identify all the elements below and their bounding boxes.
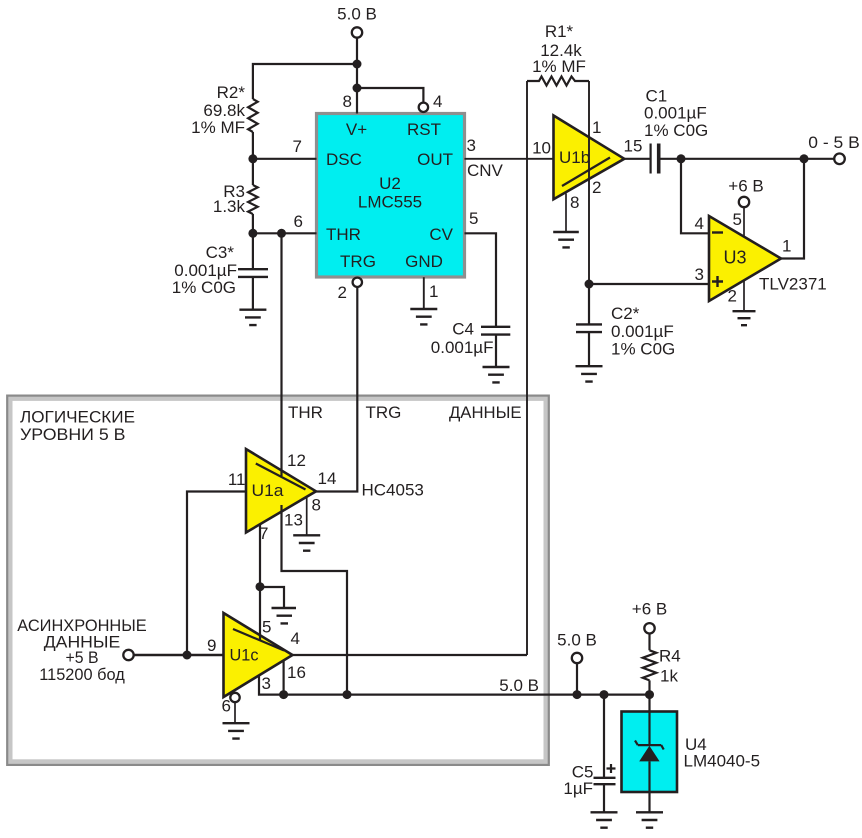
wire U2 OUT pin 3 to U1b pin 10 [465,158,554,160]
wire U2 CV pin 5 down to C4 [465,233,497,326]
wire U1a pin 13 down and over to 5V rail [282,505,348,695]
wire from top rail left to R2 [253,64,357,99]
U3 plus input symbol [712,276,723,287]
junction U1a pin13 at rail [343,690,352,699]
svg-text:16: 16 [287,663,306,682]
svg-text:2: 2 [728,287,737,306]
svg-text:R1*: R1* [545,22,574,41]
svg-text:9: 9 [207,636,216,655]
wire C2 node down to C2 [588,284,590,324]
terminal 5.0V bottom [572,653,582,663]
svg-text:U2: U2 [379,174,401,193]
junction C2 node [585,280,594,289]
junction 5.0V terminal at rail [573,690,582,699]
wire R4 bottom to rail [648,680,650,694]
svg-text:0.001µF: 0.001µF [611,322,674,341]
svg-text:1: 1 [592,118,601,137]
resistor R1 top bracket with zigzag [527,77,589,86]
wire U1a pin 7 down to U1c pin 5 [259,524,261,641]
ground under C4 [483,367,510,382]
junction pin7/pin5 ground node [256,582,265,591]
ground under U1b pin 8 [553,232,579,247]
wire R1 left leg down to data line [526,81,528,655]
U1b wiper line [562,158,610,187]
svg-text:0.001µF: 0.001µF [431,338,494,357]
U3 minus input symbol [712,231,723,233]
capacitor C2 plates [576,324,602,332]
svg-text:3: 3 [467,136,476,155]
svg-text:5.0 В: 5.0 В [557,631,597,650]
wire ground branch at pin7/pin5 node [260,587,284,608]
terminal +6V at R4 [644,623,654,633]
svg-text:C4: C4 [452,320,474,339]
svg-text:5: 5 [262,618,271,637]
svg-text:0.001µF: 0.001µF [644,104,707,123]
svg-text:8: 8 [343,92,352,111]
junction C5 at rail [600,690,609,699]
svg-text:1: 1 [782,237,791,256]
wire U1b pin 8 to ground [565,194,567,233]
wire +6V terminal to U3 pin 5 [743,207,745,237]
wire rail down to C5 [603,695,605,777]
svg-text:HC4053: HC4053 [362,481,424,500]
svg-text:4: 4 [291,629,300,648]
svg-text:U3: U3 [724,248,747,268]
logic-levels box frame (dark outer line) [7,396,549,765]
svg-text:GND: GND [405,252,443,271]
svg-text:+6 В: +6 В [632,600,667,619]
svg-text:RST: RST [407,120,441,139]
wire THR long vertical down to U1a pin 12 [280,233,282,476]
svg-text:U1b: U1b [559,148,590,167]
mux U1a triangle [246,449,316,533]
wire U1a pin 8 to ground [306,497,308,535]
wire U1c output to R1 left leg [293,654,528,656]
svg-text:3: 3 [262,674,271,693]
svg-text:TRG: TRG [340,252,376,271]
svg-text:1% MF: 1% MF [191,118,245,137]
mux U1c triangle [224,613,293,697]
svg-text:115200 бод: 115200 бод [39,665,125,684]
ground under U2 pin 1 [410,309,437,324]
svg-text:LMC555: LMC555 [358,193,422,212]
svg-text:ЛОГИЧЕСКИЕ: ЛОГИЧЕСКИЕ [20,408,135,427]
zener diode inside U4 [635,741,664,750]
svg-text:OUT: OUT [417,150,453,169]
capacitor C4 plates [481,327,510,335]
wire U1c pin 6 bubble to ground [234,702,236,723]
svg-text:11: 11 [228,470,246,489]
svg-text:3: 3 [695,265,704,284]
ground under U3 pin 2 [733,311,756,325]
resistor R2 zigzag [248,99,258,132]
capacitor C5 plates [594,778,616,784]
wire TRG pin 2 long vertical down to U1a pin 14 route [314,277,357,491]
ground under C3 [239,310,266,325]
wire THR node down to C3 [252,233,254,269]
junction R4/U4 at rail [645,690,654,699]
svg-text:1% C0G: 1% C0G [644,121,708,140]
wire data node up to U1a pin 11 [187,492,246,656]
svg-text:R2*: R2* [217,83,246,102]
svg-text:U1a: U1a [252,481,285,500]
junction top rail at 5.0V [353,60,362,69]
svg-text:1µF: 1µF [563,779,593,798]
svg-text:TRG: TRG [366,403,402,422]
resistor R3 zigzag [248,185,258,214]
wire C2 node to U3 pin 3 [589,283,709,285]
wire R3 to THR node [252,214,254,233]
svg-text:C2*: C2* [611,304,640,323]
wire U1b output to C1 [624,158,650,160]
svg-text:8: 8 [312,496,321,515]
svg-text:5: 5 [733,210,742,229]
resistor R4 zigzag [643,650,657,680]
junction THR node right [277,229,286,238]
IC U2 LMC555 body [317,114,465,278]
logic-levels box frame (light inner band) [10,399,546,762]
buffer U1b triangle [554,116,625,200]
wire U3 output feedback up to output line [781,159,804,259]
terminal async data input [123,650,133,660]
wire 5.0V top terminal down to U2 V+ pin 8 [356,37,358,114]
svg-text:5.0 В: 5.0 В [337,5,377,24]
terminal U1c pin 6 bubble [230,693,239,702]
wire DSC node to U2 pin 7 [253,158,317,160]
svg-text:0 - 5 В: 0 - 5 В [808,133,860,152]
terminal 5.0V top [352,27,362,37]
svg-text:1: 1 [429,282,438,301]
wire THR node to U2 pin 6 [253,232,317,234]
svg-text:14: 14 [318,469,337,488]
svg-text:+6 В: +6 В [728,177,763,196]
wire C2 to ground [588,332,590,366]
terminal +6V at U3 [739,197,749,207]
svg-text:TLV2371: TLV2371 [759,275,827,294]
wire 5.0V bottom terminal to rail [576,663,578,695]
terminal 0-5V output [834,154,845,165]
svg-text:2: 2 [592,178,601,197]
wire R2 to DSC node [252,132,254,159]
IC U4 LM4040-5 body [622,712,678,793]
svg-text:R4: R4 [659,647,681,666]
ground under U1a pin 8 [293,535,320,550]
wire DSC node down to R3 [252,159,254,185]
svg-text:10: 10 [532,139,551,158]
svg-text:CNV: CNV [467,161,504,180]
svg-text:1.3k: 1.3k [213,197,246,216]
wire U1c pin 3 to 5V rail [259,675,650,694]
svg-text:LM4040-5: LM4040-5 [684,752,761,771]
svg-text:THR: THR [326,225,361,244]
C5 plus sign [607,764,616,773]
op-amp U3 triangle [709,216,781,301]
junction V+/RST rail [353,84,362,93]
svg-text:ДАННЫЕ: ДАННЫЕ [449,403,522,422]
capacitor C3 plates [238,269,268,277]
svg-text:2: 2 [338,283,347,302]
junction DSC node [248,154,257,163]
svg-text:U1c: U1c [230,646,259,665]
terminal U2 TRG pin 2 [353,278,362,287]
svg-text:CV: CV [429,225,453,244]
svg-text:12: 12 [287,451,306,470]
svg-text:V+: V+ [346,120,367,139]
junction U1c pin16 at rail [279,690,288,699]
wire C1 node down to U3 pin 4 [681,159,709,234]
svg-text:7: 7 [259,524,268,543]
ground at pin7/pin5 node [272,608,297,623]
svg-text:1% C0G: 1% C0G [611,340,675,359]
wire R1 right leg down through U1b pins 1-2 to C2 node [588,81,590,284]
wire U3 pin 2 to ground [743,280,745,311]
svg-text:8: 8 [570,193,579,212]
capacitor C1 plates [649,144,651,174]
svg-text:6: 6 [294,212,303,231]
svg-text:7: 7 [293,137,302,156]
svg-text:6: 6 [222,697,231,716]
zener triangle [639,746,659,762]
svg-text:1% MF: 1% MF [532,57,586,76]
junction output line to U3 feedback [800,154,809,163]
wire V+ rail to RST pin 4 [357,88,423,102]
svg-text:13: 13 [284,511,303,530]
junction C1 to U3 pin4 [677,154,686,163]
ground under C2 [576,366,603,381]
wire C5 to ground [603,784,605,812]
svg-text:DSC: DSC [326,150,362,169]
svg-text:1% C0G: 1% C0G [172,278,236,297]
ground under U4 [636,812,663,827]
junction THR node left [248,229,257,238]
svg-text:4: 4 [695,214,704,233]
wire C3 to ground [252,277,254,310]
svg-text:THR: THR [288,403,323,422]
wire U1c pin 16 stub to 5V rail [283,661,285,695]
wire C1 to output terminal [661,158,835,160]
svg-text:УРОВНИ 5 В: УРОВНИ 5 В [20,425,126,444]
terminal U2 RST pin 4 [419,103,428,112]
svg-text:1k: 1k [660,667,678,686]
ground under C5 [591,812,618,827]
svg-text:5: 5 [469,209,478,228]
wire R4 top to +6V terminal [648,633,650,650]
ground under U1c pin 6 [223,723,250,738]
wire rail through U4 to ground [648,695,650,813]
svg-text:5.0 В: 5.0 В [499,676,539,695]
wire async data input to U1c pin 9 [134,654,224,656]
wire U2 GND pin 1 [423,277,425,309]
svg-text:4: 4 [433,92,442,111]
wire C4 to ground [495,335,497,367]
svg-text:C3*: C3* [206,243,235,262]
junction async data node [183,651,192,660]
svg-text:15: 15 [624,137,643,156]
U1c wiper line [233,629,284,651]
U1a wiper line [256,464,306,490]
